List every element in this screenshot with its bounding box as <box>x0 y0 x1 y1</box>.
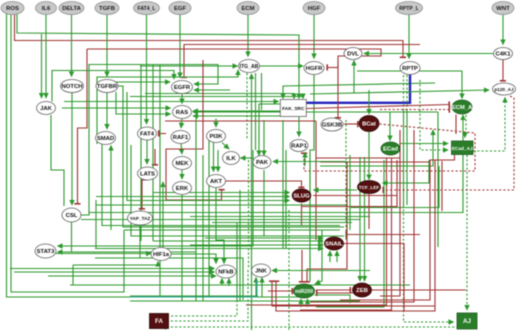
svg-text:FA: FA <box>155 318 163 325</box>
svg-text:RAS: RAS <box>176 110 189 116</box>
wire w57 <box>315 121 317 240</box>
svg-text:AKT: AKT <box>210 179 223 185</box>
wire w126 <box>364 157 366 281</box>
node ECad <box>381 142 400 155</box>
wire w162 <box>261 278 263 298</box>
wire w32 <box>193 111 438 113</box>
wire w91 <box>466 155 468 310</box>
svg-text:NFkB: NFkB <box>218 270 233 276</box>
wire w98 <box>307 105 450 109</box>
wire w69 <box>215 119 217 128</box>
node C4K1 <box>494 48 513 60</box>
wire w105 <box>314 189 358 191</box>
svg-text:HIF1a: HIF1a <box>153 252 170 258</box>
wire w187 <box>161 270 248 321</box>
wire w107 <box>368 194 370 229</box>
wire w47 <box>364 53 493 55</box>
node ECad_AJ <box>452 141 474 155</box>
node YAP_TAZ <box>128 211 153 225</box>
wire w95 <box>406 110 408 205</box>
svg-text:PAK: PAK <box>256 160 269 166</box>
wire w127 <box>372 289 466 291</box>
wire w22 <box>118 86 344 227</box>
svg-text:FAT4: FAT4 <box>140 132 155 138</box>
node RAS <box>173 106 192 119</box>
node EGFR <box>172 81 193 94</box>
wire w172 <box>236 222 238 300</box>
wire w112 <box>313 195 397 197</box>
node ILK <box>223 152 240 165</box>
wire w170 <box>202 155 204 301</box>
wire w89 <box>441 161 443 211</box>
svg-text:FAT4_L: FAT4_L <box>137 6 155 12</box>
svg-text:RPTP_L: RPTP_L <box>399 6 419 12</box>
wire w154 <box>171 254 216 264</box>
wire w62 <box>259 104 280 156</box>
wire w159 <box>228 279 230 287</box>
wire w178 <box>288 210 290 330</box>
node FAT4_L <box>134 2 160 15</box>
svg-text:DVL: DVL <box>347 52 359 58</box>
node SMAD <box>96 132 116 145</box>
wire w180 <box>345 120 347 240</box>
wire w43 <box>145 94 294 99</box>
wire w135 <box>212 222 352 224</box>
node ERK <box>173 182 192 195</box>
wire w40 <box>261 73 263 110</box>
wire w153 <box>73 262 158 266</box>
node TGFBR <box>96 80 118 93</box>
wire w23 <box>52 71 174 102</box>
node GSK3B <box>321 118 343 131</box>
wire w48 <box>353 61 355 94</box>
wire w54 <box>304 124 475 171</box>
wire w90 <box>340 155 455 300</box>
wire w3 <box>15 14 404 58</box>
wire w185 <box>380 130 400 296</box>
wire w9 <box>146 15 148 125</box>
node p120_AJ <box>493 83 516 95</box>
wire w122 <box>307 162 347 282</box>
wire w157 <box>48 275 216 277</box>
wire w27 <box>194 89 230 91</box>
node TGFB <box>95 2 119 15</box>
wire w143 <box>95 200 97 249</box>
wire w84 <box>420 80 448 150</box>
wire w182 <box>272 281 435 306</box>
wire w110 <box>127 92 290 201</box>
wire w173 <box>239 190 241 301</box>
wire w132 <box>307 299 309 307</box>
wire w176 <box>282 120 284 248</box>
wire w124 <box>316 289 351 291</box>
wire w108 <box>153 192 290 194</box>
wire w156 <box>14 271 215 273</box>
wire w6 <box>41 34 43 98</box>
wire w175 <box>58 150 254 246</box>
svg-text:ECM: ECM <box>241 6 254 12</box>
wire w18 <box>78 49 88 204</box>
wire w70 <box>181 144 182 155</box>
wire w149 <box>159 65 161 298</box>
wire w145 <box>71 222 73 252</box>
wire w97 <box>380 109 450 111</box>
wire w151 <box>58 251 197 253</box>
wire w161 <box>255 278 257 298</box>
svg-text:SNAIL: SNAIL <box>325 242 343 248</box>
svg-text:HGFR: HGFR <box>306 66 323 72</box>
node MEK <box>173 157 192 170</box>
wire w88 <box>300 158 392 311</box>
wire w115 <box>153 240 323 242</box>
svg-text:RAF1: RAF1 <box>173 135 189 141</box>
wire w71 <box>181 170 183 180</box>
wire w13 <box>408 15 410 59</box>
wire w139 <box>190 216 370 218</box>
svg-text:PI3K: PI3K <box>209 134 223 140</box>
wire w141 <box>110 146 112 231</box>
wire w24 <box>81 65 218 216</box>
node FAK_SRC <box>280 100 306 117</box>
svg-text:TCF_LEF: TCF_LEF <box>359 185 380 190</box>
wire w164 <box>72 265 74 285</box>
wire w39 <box>255 73 257 150</box>
wire w160 <box>221 279 223 286</box>
node RPTP <box>400 62 420 75</box>
wire w118 <box>329 251 331 262</box>
wire w16 <box>327 67 338 69</box>
node HIF1a <box>151 248 171 261</box>
wire w76 <box>142 180 148 209</box>
wire w144 <box>139 226 141 259</box>
wire w65 <box>304 153 306 167</box>
wire w73 <box>217 150 219 172</box>
svg-text:STAT3: STAT3 <box>37 249 56 255</box>
wire w25 <box>97 70 238 144</box>
wire w103 <box>465 115 467 135</box>
wire w146 <box>131 145 344 236</box>
wire w131 <box>300 299 302 307</box>
svg-text:IL6: IL6 <box>42 6 51 12</box>
wire w75 <box>146 140 148 164</box>
wire w53 <box>389 112 391 141</box>
wire w85 <box>464 132 466 138</box>
node AKT <box>207 175 226 188</box>
wire w45 <box>307 75 411 103</box>
wire w137 <box>96 204 346 206</box>
wire w34 <box>193 115 290 117</box>
wire w184 <box>310 130 414 302</box>
wire w140 <box>81 219 360 221</box>
svg-text:EGFR: EGFR <box>174 85 191 91</box>
wire w74 <box>222 143 229 150</box>
node HGF <box>303 2 325 15</box>
node RAP1 <box>290 140 308 152</box>
wire w36 <box>140 65 238 67</box>
svg-text:RAP1: RAP1 <box>291 144 307 150</box>
wire w66 <box>310 90 489 94</box>
wire w111 <box>301 204 303 227</box>
node SNAIL <box>325 237 344 250</box>
wire w150 <box>162 182 164 250</box>
wire w94 <box>406 75 408 110</box>
wire w99 <box>455 115 457 135</box>
node JNK <box>252 264 271 277</box>
wire w130 <box>268 290 293 292</box>
wire w61 <box>437 112 439 247</box>
node WNT <box>492 2 514 15</box>
node FAT4 <box>138 127 157 140</box>
wire w113 <box>302 160 397 207</box>
svg-text:TGFB: TGFB <box>99 6 115 12</box>
svg-text:C4K1: C4K1 <box>495 52 511 58</box>
node ITG_AB <box>239 60 260 73</box>
wire w11 <box>247 15 249 57</box>
svg-text:RPTP: RPTP <box>402 66 418 72</box>
wire w31 <box>193 110 280 112</box>
node RAF1 <box>171 131 190 144</box>
svg-text:ERK: ERK <box>176 186 189 192</box>
wire w78 <box>154 149 156 165</box>
wire w5 <box>45 15 47 99</box>
svg-text:HGF: HGF <box>308 6 321 12</box>
wire w186 <box>161 300 237 316</box>
wire w133 <box>315 295 351 303</box>
wire w120 <box>346 234 420 236</box>
wire w171 <box>208 140 210 297</box>
wire w104 <box>383 160 430 183</box>
wire w10 <box>179 15 181 78</box>
wire w51 <box>344 123 358 125</box>
node ROS <box>1 2 24 15</box>
wire w134 <box>124 229 340 231</box>
node FA <box>150 314 169 329</box>
wire w181 <box>349 155 351 230</box>
wire w174 <box>248 160 250 268</box>
wire w59 <box>320 161 430 163</box>
svg-text:ITG_AB: ITG_AB <box>240 64 259 70</box>
wire w79 <box>166 60 222 200</box>
wire w165 <box>130 280 257 297</box>
wire w152 <box>56 253 151 255</box>
wire w117 <box>95 248 323 250</box>
node DVL <box>344 48 362 60</box>
wire w183 <box>276 160 435 311</box>
wire w109 <box>96 196 290 198</box>
svg-text:ZEB: ZEB <box>356 288 368 294</box>
svg-text:ROS: ROS <box>6 6 19 12</box>
wire w129 <box>301 250 303 282</box>
wire w147 <box>10 268 215 270</box>
wire w50 <box>337 60 339 118</box>
wire w4 <box>17 14 299 99</box>
svg-text:LATS: LATS <box>140 172 155 178</box>
wire w77 <box>159 133 167 135</box>
svg-text:FAK_SRC: FAK_SRC <box>282 106 305 112</box>
node EGF <box>169 2 191 15</box>
node PI3K <box>207 130 226 143</box>
wire w30 <box>51 115 64 206</box>
wire w80 <box>241 157 254 159</box>
wire w37 <box>251 74 253 330</box>
wire w167 <box>130 300 360 302</box>
svg-text:EGF: EGF <box>174 6 187 12</box>
wire w177 <box>285 150 287 248</box>
wire w101 <box>350 166 439 208</box>
node SLUG <box>292 189 311 202</box>
svg-text:YAP_TAZ: YAP_TAZ <box>130 216 151 221</box>
wire w42 <box>283 83 435 99</box>
wire w81 <box>273 161 347 163</box>
wire w82 <box>263 170 265 236</box>
node TCF_LEF <box>358 181 381 194</box>
node HGFR <box>304 62 324 75</box>
svg-text:JAK: JAK <box>40 106 53 112</box>
wire w116 <box>190 244 323 246</box>
wire w83 <box>400 143 448 145</box>
wire w14 <box>502 15 504 45</box>
wire w15 <box>87 49 381 68</box>
wire w188 <box>161 326 467 328</box>
node NFkB <box>216 265 236 278</box>
svg-text:miR200: miR200 <box>295 289 313 295</box>
wire w46 <box>502 60 504 82</box>
wire w19 <box>71 93 73 206</box>
wire w114 <box>205 237 323 239</box>
wire w155 <box>216 188 224 264</box>
wire w35 <box>260 65 304 67</box>
wire w128 <box>315 230 322 284</box>
wire w96 <box>404 205 454 322</box>
node STAT3 <box>35 244 56 258</box>
node ECM <box>237 2 259 15</box>
wire w63 <box>263 120 265 156</box>
wire w26 <box>100 81 170 83</box>
wire w168 <box>181 195 183 302</box>
node BCat <box>359 116 379 132</box>
node AJ <box>457 313 477 329</box>
node CSL <box>62 208 81 222</box>
svg-text:WNT: WNT <box>496 6 510 12</box>
wire w64 <box>298 117 300 137</box>
wire w60 <box>320 130 433 166</box>
node RPTP_L <box>396 2 423 15</box>
wire w169 <box>195 118 197 301</box>
wire w8 <box>106 15 108 77</box>
wire w33 <box>140 65 142 242</box>
wire w72 <box>213 143 215 172</box>
wire w20 <box>106 93 108 130</box>
wire w166 <box>130 295 258 297</box>
wire w55 <box>226 181 302 188</box>
wire w100 <box>383 96 514 190</box>
svg-text:ECad_AJ: ECad_AJ <box>452 146 473 152</box>
wire w56 <box>165 120 316 122</box>
wire w119 <box>336 251 338 262</box>
wire w29 <box>62 107 171 109</box>
wire w136 <box>95 258 243 300</box>
node miR200 <box>294 284 315 298</box>
wire w12 <box>313 15 315 59</box>
wire w92 <box>403 75 405 110</box>
svg-text:SMAD: SMAD <box>97 136 114 142</box>
wire w7 <box>71 15 73 77</box>
svg-text:DELTA: DELTA <box>62 6 82 12</box>
wire w125 <box>359 157 361 281</box>
svg-text:ECM_A: ECM_A <box>452 105 473 111</box>
node PAK <box>253 156 271 169</box>
svg-text:ECad: ECad <box>383 147 398 153</box>
wire w38 <box>246 73 248 140</box>
wire w68 <box>181 119 182 129</box>
svg-text:AJ: AJ <box>463 318 471 325</box>
svg-text:SLUG: SLUG <box>293 194 310 200</box>
node IL6 <box>36 2 57 15</box>
node ECM_A <box>452 100 473 114</box>
wire w58 <box>316 157 400 159</box>
wire w93 <box>403 110 405 205</box>
wire w28 <box>181 94 183 104</box>
svg-text:GSK3B: GSK3B <box>322 123 342 129</box>
wire w123 <box>317 292 353 294</box>
wire w179 <box>309 155 311 281</box>
wire w1 <box>7 14 306 297</box>
wire w148 <box>152 65 154 242</box>
svg-text:CSL: CSL <box>66 213 78 219</box>
wire w106 <box>368 132 370 180</box>
wire w163 <box>70 284 410 286</box>
node ZEB <box>353 283 372 297</box>
svg-text:JNK: JNK <box>255 269 268 275</box>
wire w49 <box>357 71 462 99</box>
node LATS <box>138 167 158 180</box>
wire w158 <box>272 270 370 272</box>
node DELTA <box>59 2 84 15</box>
wire w67 <box>64 101 279 103</box>
svg-text:NOTCH: NOTCH <box>62 84 83 90</box>
node NOTCH <box>61 80 84 93</box>
wire w142 <box>102 145 340 226</box>
wire w121 <box>344 244 404 312</box>
svg-text:p120_AJ: p120_AJ <box>494 87 514 92</box>
svg-text:TGFBR: TGFBR <box>97 84 118 90</box>
wire w44 <box>130 97 303 99</box>
wire w87 <box>246 158 387 306</box>
svg-text:MEK: MEK <box>175 161 189 167</box>
wire w2 <box>11 14 124 292</box>
wire w102 <box>316 160 384 307</box>
wire w17 <box>184 45 420 78</box>
wire w41 <box>310 75 314 282</box>
node JAK <box>37 102 56 115</box>
svg-text:BCat: BCat <box>362 122 376 128</box>
wire w21 <box>116 92 171 114</box>
wire w86 <box>473 98 505 152</box>
wire w52 <box>368 90 370 114</box>
svg-text:ILK: ILK <box>226 156 236 162</box>
wire w138 <box>89 115 463 213</box>
